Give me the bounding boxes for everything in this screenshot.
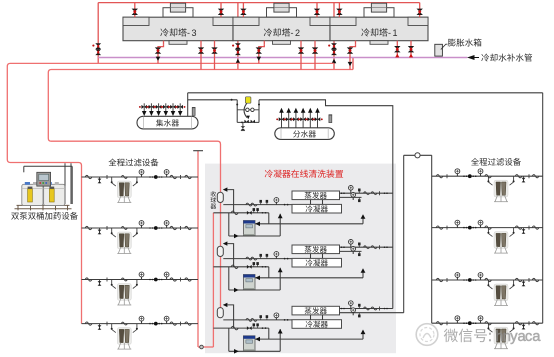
svg-text:-: - [388,28,391,38]
svg-text:2: 2 [295,28,300,38]
svg-text::: : [488,329,492,345]
svg-text:1: 1 [393,28,398,38]
svg-text:-: - [291,28,294,38]
svg-text:a: a [532,329,541,345]
svg-text:-: - [187,28,190,38]
svg-text:3: 3 [192,28,197,38]
